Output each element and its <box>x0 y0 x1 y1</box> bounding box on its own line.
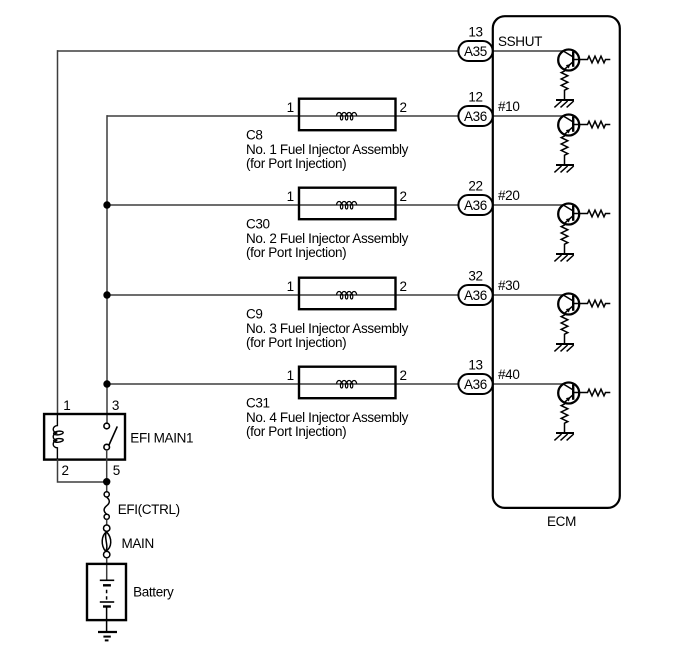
svg-text:2: 2 <box>400 189 407 204</box>
resistor emitter Q5 <box>561 403 568 432</box>
junction on second bus at #20 row <box>103 201 110 208</box>
svg-text:No. 3 Fuel Injector Assembly: No. 3 Fuel Injector Assembly <box>246 321 409 336</box>
svg-text:1: 1 <box>287 189 294 204</box>
wire: #40 inside ECM to transistor Q5 <box>493 383 564 385</box>
resistor base Q1 <box>573 56 610 63</box>
fusible link MAIN <box>102 525 111 558</box>
wire: #30 row horizontal <box>107 294 458 296</box>
svg-text:13: 13 <box>468 25 482 40</box>
svg-text:#40: #40 <box>498 367 519 382</box>
svg-text:#30: #30 <box>498 278 519 293</box>
svg-text:5: 5 <box>113 463 120 478</box>
wire: second bus from row2 corner down to relay pin 3 <box>106 115 108 423</box>
svg-text:MAIN: MAIN <box>122 536 154 551</box>
svg-text:A35: A35 <box>464 44 487 59</box>
wire: left bus from row1 corner down to relay pin 1 <box>57 50 59 414</box>
ground Q1 (ECM internal) <box>554 100 574 107</box>
wire: #30 inside ECM to transistor Q4 <box>493 294 564 296</box>
wire: fuse to fusible link <box>106 519 108 525</box>
resistor emitter Q3 <box>561 224 568 253</box>
ground (battery earth) <box>98 632 117 640</box>
connector A36 pin 22 (#20) <box>458 195 492 215</box>
resistor emitter Q4 <box>561 314 568 343</box>
wire: #20 inside ECM to transistor Q3 <box>493 204 564 206</box>
connector A36 pin 12 (#10) <box>458 106 492 126</box>
svg-text:C8: C8 <box>246 127 263 142</box>
svg-text:EFI(CTRL): EFI(CTRL) <box>118 502 180 517</box>
svg-text:32: 32 <box>468 269 482 284</box>
fuse EFI(CTRL) <box>104 492 109 520</box>
svg-text:A36: A36 <box>464 377 487 392</box>
ground Q4 (ECM internal) <box>554 344 574 351</box>
connector A36 pin 32 (#30) <box>458 285 492 305</box>
svg-text:13: 13 <box>468 358 482 373</box>
injector C8 body <box>299 99 396 131</box>
svg-text:(for Port Injection): (for Port Injection) <box>246 245 346 260</box>
svg-text:A36: A36 <box>464 109 487 124</box>
svg-text:2: 2 <box>400 100 407 115</box>
injector C30 body <box>299 188 396 220</box>
svg-text:1: 1 <box>63 398 70 413</box>
connector A36 pin 13 (#40) <box>458 374 492 394</box>
junction on second bus at #30 row <box>103 291 110 298</box>
wire: #40 row horizontal <box>107 383 458 385</box>
transistor Q5 (#40 driver) <box>558 383 579 404</box>
ground Q3 (ECM internal) <box>554 254 574 261</box>
resistor base Q4 <box>573 300 610 307</box>
svg-text:#20: #20 <box>498 188 519 203</box>
svg-text:No. 1 Fuel Injector Assembly: No. 1 Fuel Injector Assembly <box>246 142 409 157</box>
junction on second bus at #40 row <box>103 380 110 387</box>
ground Q2 (ECM internal) <box>554 165 574 172</box>
relay EFI MAIN1 box <box>44 414 125 460</box>
wire: fusible link to battery <box>106 558 108 581</box>
resistor base Q5 <box>573 389 610 396</box>
svg-text:1: 1 <box>287 100 294 115</box>
battery box <box>87 564 126 620</box>
junction below relay pin 5 <box>103 478 110 485</box>
battery cell plates <box>100 580 114 632</box>
relay switch contacts <box>104 423 110 450</box>
connector A35 pin 13 (SSHUT) <box>458 41 492 61</box>
svg-text:(for Port Injection): (for Port Injection) <box>246 335 346 350</box>
svg-text:1: 1 <box>287 368 294 383</box>
svg-text:A36: A36 <box>464 288 487 303</box>
svg-text:C31: C31 <box>246 395 270 410</box>
svg-text:EFI MAIN1: EFI MAIN1 <box>130 430 193 445</box>
wire: SSHUT inside ECM to transistor Q1 <box>493 50 564 52</box>
svg-text:#10: #10 <box>498 99 519 114</box>
svg-text:No. 4 Fuel Injector Assembly: No. 4 Fuel Injector Assembly <box>246 410 409 425</box>
svg-text:(for Port Injection): (for Port Injection) <box>246 156 346 171</box>
resistor base Q3 <box>573 210 610 217</box>
svg-text:(for Port Injection): (for Port Injection) <box>246 424 346 439</box>
svg-text:No. 2 Fuel Injector Assembly: No. 2 Fuel Injector Assembly <box>246 231 409 246</box>
resistor base Q2 <box>573 121 610 128</box>
svg-text:Battery: Battery <box>133 585 174 600</box>
wire: SSHUT feed from relay pin 1 (horizontal, row 1) <box>58 50 459 52</box>
transistor Q1 (SSHUT driver) <box>558 50 579 71</box>
svg-text:2: 2 <box>62 463 69 478</box>
svg-text:3: 3 <box>112 398 119 413</box>
transistor Q3 (#20 driver) <box>558 204 579 225</box>
svg-text:12: 12 <box>468 90 482 105</box>
svg-text:2: 2 <box>400 368 407 383</box>
transistor Q2 (#10 driver) <box>558 115 579 136</box>
wire: #10 inside ECM to transistor Q2 <box>493 115 564 117</box>
svg-text:A36: A36 <box>464 198 487 213</box>
svg-text:C30: C30 <box>246 216 270 231</box>
svg-text:2: 2 <box>400 279 407 294</box>
svg-text:1: 1 <box>287 279 294 294</box>
wire: relay coil lower lead to pin 2 and over to pin5 node <box>58 459 107 482</box>
relay switch blade <box>109 426 117 445</box>
wire: relay pin 5 down to fuse <box>106 450 108 492</box>
wire: #10 row horizontal <box>107 115 458 117</box>
svg-text:C9: C9 <box>246 306 263 321</box>
svg-text:SSHUT: SSHUT <box>498 34 542 49</box>
injector C31 body <box>299 367 396 399</box>
injector C9 body <box>299 278 396 310</box>
transistor Q4 (#30 driver) <box>558 294 579 315</box>
resistor emitter Q2 <box>561 135 568 164</box>
relay coil <box>53 413 63 461</box>
ECM box U1 <box>493 16 620 508</box>
ground Q5 (ECM internal) <box>554 433 574 440</box>
svg-text:ECM: ECM <box>547 514 576 529</box>
resistor emitter Q1 <box>561 70 568 99</box>
wire: #20 row horizontal <box>107 204 458 206</box>
svg-text:22: 22 <box>468 179 482 194</box>
